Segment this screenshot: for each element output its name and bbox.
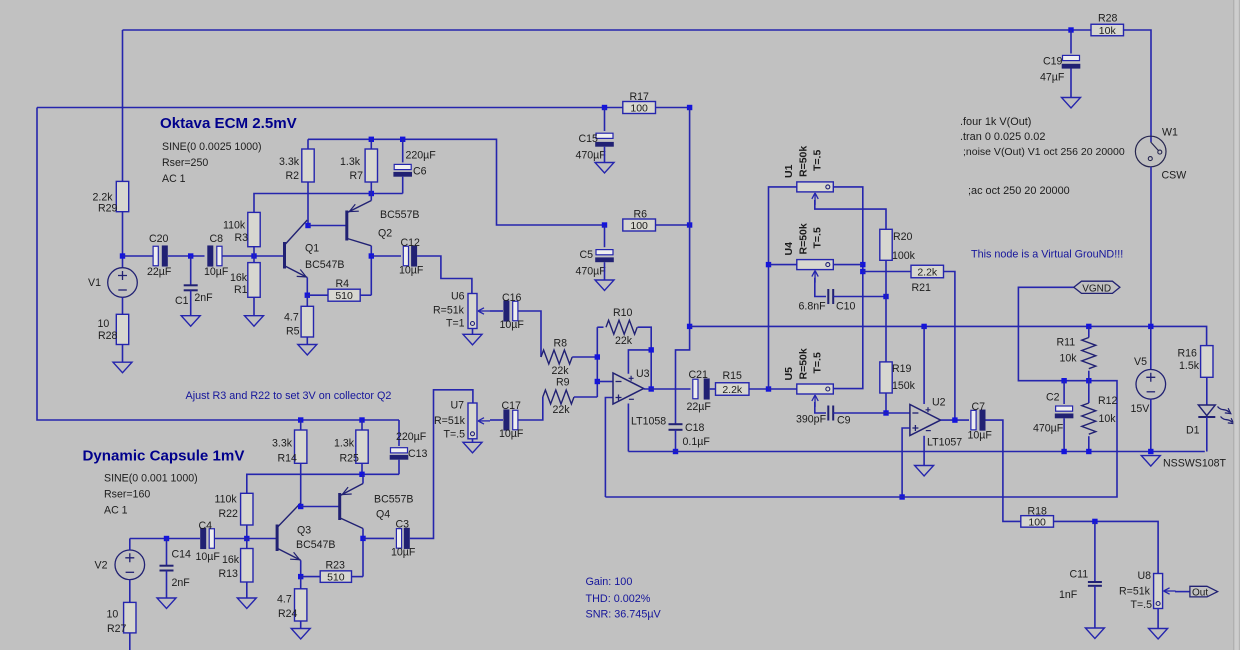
resistor R22 110k: [241, 493, 253, 525]
svg-text:T=.5: T=.5: [1131, 599, 1153, 611]
ground V5: [1141, 456, 1160, 467]
label C12: [401, 237, 421, 249]
resistor R7 1.3k: [365, 149, 377, 182]
wire R28b to gnd: [122, 345, 124, 363]
node mic input V1: [120, 253, 125, 258]
wire R10 right lead: [638, 327, 652, 389]
svg-text:C1: C1: [175, 295, 189, 307]
svg-text:R=51k: R=51k: [1119, 586, 1151, 598]
wire R14 to Q3 collector: [300, 463, 302, 506]
svg-text:Q2: Q2: [378, 228, 392, 240]
node V5 minus: [1148, 449, 1153, 454]
label R24: [278, 608, 298, 620]
ground C15: [595, 163, 614, 174]
label C7 value: [968, 430, 993, 442]
label R16: [1178, 348, 1198, 360]
potentiometer U6: [468, 294, 490, 329]
wire R22 bottom: [246, 525, 248, 539]
wire C6 top lead: [402, 139, 404, 162]
flag VGND: [1074, 281, 1120, 294]
svg-text:R25: R25: [340, 453, 360, 465]
label U5: [783, 367, 795, 381]
wire C5 to gnd: [604, 262, 606, 280]
resistor R29 2.2k: [116, 181, 128, 211]
label U6 T: [446, 318, 465, 330]
wire dynamic bias: [247, 474, 399, 493]
svg-text:2.2k: 2.2k: [722, 384, 743, 396]
label C11 value: [1059, 589, 1078, 601]
label R5 value: [284, 311, 299, 323]
svg-text:W1: W1: [1162, 127, 1178, 139]
label V5 value: [1131, 403, 1151, 415]
svg-text:U6: U6: [451, 291, 465, 303]
wire R11 top lead: [1088, 326, 1090, 337]
svg-text:R24: R24: [278, 608, 298, 620]
label R28: [1098, 13, 1118, 25]
svg-text:C7: C7: [972, 401, 986, 413]
wire C1 to gnd: [190, 290, 192, 315]
ground V1 branch: [113, 362, 132, 373]
wire R5 top: [306, 295, 308, 306]
svg-text:3.3k: 3.3k: [272, 438, 293, 450]
node R21 tap: [860, 269, 865, 274]
node C14 tap: [164, 536, 169, 541]
wire W1 down to supply line: [1150, 167, 1152, 327]
svg-text:R7: R7: [350, 170, 364, 182]
svg-text:;noise V(Out) V1 oct 256 20 20: ;noise V(Out) V1 oct 256 20 20000: [963, 146, 1125, 158]
label C4: [199, 520, 213, 532]
label R19 value: [892, 380, 916, 392]
svg-text:220µF: 220µF: [396, 431, 427, 443]
svg-text:C2: C2: [1046, 392, 1060, 404]
label C13 value: [396, 431, 427, 443]
label U1: [783, 164, 795, 178]
svg-text:22k: 22k: [552, 365, 570, 377]
label R12: [1098, 395, 1118, 407]
label U4 T: [812, 227, 824, 248]
svg-text:C6: C6: [413, 166, 427, 178]
svg-text:R=50k: R=50k: [798, 348, 810, 379]
op-amp U3 LT1058: [613, 373, 644, 404]
svg-text:10µF: 10µF: [399, 265, 424, 277]
wire top phantom rail: [123, 29, 1092, 31]
svg-text:AC 1: AC 1: [104, 505, 128, 517]
label R2 value: [279, 156, 300, 168]
svg-text:R16: R16: [1178, 348, 1198, 360]
resistor R2 3.3k: [302, 149, 314, 182]
wire C14 to gnd: [166, 571, 168, 599]
label U6 value: [433, 304, 465, 316]
label R14 value: [272, 438, 293, 450]
label R11: [1057, 337, 1076, 349]
svg-text:Gain: 100: Gain: 100: [586, 576, 633, 588]
label Q1 type: [305, 259, 344, 271]
svg-text:R8: R8: [554, 338, 568, 350]
svg-text:BC557B: BC557B: [380, 209, 419, 221]
ground C1: [181, 316, 200, 327]
capacitor C2: [1055, 406, 1074, 418]
wire R3 bottom: [253, 247, 255, 263]
label U7 value: [434, 415, 466, 427]
svg-text:BC547B: BC547B: [305, 259, 344, 271]
wire left drop x37: [37, 108, 399, 421]
svg-text:10µF: 10µF: [968, 430, 993, 442]
svg-text:16k: 16k: [230, 272, 248, 284]
svg-text:U5: U5: [783, 367, 795, 381]
label C4 value: [196, 551, 221, 563]
label R15: [723, 370, 743, 382]
label W1: [1162, 127, 1178, 139]
svg-text:T=.5: T=.5: [444, 429, 466, 441]
svg-text:C3: C3: [396, 519, 410, 531]
svg-text:R21: R21: [912, 282, 932, 294]
resistor R6 100: [623, 219, 656, 232]
node inverting input U3: [595, 379, 600, 384]
wire tone left riser: [769, 187, 797, 389]
wire C12 to U6: [417, 256, 472, 294]
label Q3: [297, 525, 311, 537]
wire R18 right: [1054, 521, 1159, 573]
label C12 value: [399, 265, 424, 277]
label R7: [350, 170, 364, 182]
label C3: [396, 519, 410, 531]
wire U2 vplus: [923, 326, 925, 404]
label U5 value: [798, 348, 810, 379]
label C10 value: [799, 301, 827, 313]
resistor R16 1.5k: [1201, 346, 1213, 378]
ground R24: [291, 629, 310, 640]
potentiometer U8: [1154, 574, 1176, 609]
comment V1 rser: [162, 157, 208, 169]
node tone input: [766, 386, 771, 391]
capacitor C4: [200, 528, 214, 549]
svg-text:R14: R14: [278, 453, 298, 465]
wire R21 left lead: [863, 271, 911, 273]
label U2: [932, 397, 946, 409]
wire Q3 emitter node: [300, 560, 302, 576]
label R23: [326, 560, 346, 572]
label U2 type: [927, 436, 962, 448]
directive tran: [960, 131, 1045, 143]
wire R28 to W1 corner: [1124, 30, 1152, 142]
svg-text:3.3k: 3.3k: [279, 156, 300, 168]
label U7: [451, 400, 465, 412]
wire R10 left lead: [597, 326, 603, 328]
label Q4 type: [374, 494, 413, 506]
svg-text:10k: 10k: [1099, 25, 1117, 37]
label R20 value: [892, 250, 916, 262]
wire R11 bottom lead: [1088, 371, 1090, 381]
svg-text:47µF: 47µF: [1040, 72, 1065, 84]
wire Q4 out to C3: [363, 537, 394, 539]
wire oktava feed y107: [37, 107, 623, 109]
wire C9 right lead: [833, 412, 886, 414]
wire C1 lead: [190, 256, 192, 285]
label R1: [234, 284, 248, 296]
svg-text:.tran 0 0.025 0.02: .tran 0 0.025 0.02: [960, 131, 1045, 143]
wire emitter to R4 node: [306, 278, 308, 296]
svg-text:C11: C11: [1070, 568, 1089, 580]
wire U5 wiper chain: [815, 402, 826, 413]
svg-text:C21: C21: [689, 369, 709, 381]
label R20: [893, 231, 913, 243]
capacitor C3: [396, 528, 409, 549]
label C16: [502, 292, 522, 304]
wire C10 right lead: [833, 296, 886, 298]
svg-text:V1: V1: [88, 277, 101, 289]
svg-text:R23: R23: [326, 560, 346, 572]
capacitor C9: [828, 406, 833, 421]
svg-text:R6: R6: [634, 208, 648, 220]
label C20: [149, 233, 169, 245]
svg-text:2nF: 2nF: [194, 292, 213, 304]
comment virtual ground: [971, 249, 1123, 261]
label R13 value: [222, 554, 240, 566]
wire collector to Q2 base: [308, 225, 346, 227]
label C14 value: [172, 577, 191, 589]
label C7: [972, 401, 986, 413]
label R28b: [98, 330, 118, 342]
wire C21 to R15: [710, 388, 716, 390]
capacitor C10: [828, 289, 833, 304]
resistor R20 100k: [880, 229, 892, 260]
node U2 vplus tap: [921, 324, 926, 329]
svg-text:10µF: 10µF: [500, 319, 525, 331]
svg-text:This node is a Virtual GrouND!: This node is a Virtual GrouND!!!: [971, 249, 1123, 261]
comment V2 rser: [104, 489, 150, 501]
svg-text:U1: U1: [783, 164, 795, 178]
label R27: [107, 623, 127, 635]
label R28b value: [98, 318, 110, 330]
wire R7 top: [370, 139, 372, 149]
wire U3 plus to vgnd: [605, 398, 612, 498]
resistor R27 10: [124, 602, 136, 633]
svg-text:220µF: 220µF: [406, 149, 437, 161]
svg-text:10µF: 10µF: [499, 428, 524, 440]
label R7 value: [340, 156, 361, 168]
wire R15 right: [749, 388, 769, 390]
wire main supply line: [690, 326, 1207, 345]
voltage source V5 15V: [1136, 370, 1166, 400]
wire U6 to gnd: [472, 329, 474, 335]
svg-text:SINE(0 0.001 1000): SINE(0 0.001 1000): [104, 473, 198, 485]
svg-text:U7: U7: [451, 400, 465, 412]
svg-text:Rser=250: Rser=250: [162, 157, 208, 169]
svg-text:Rser=160: Rser=160: [104, 489, 150, 501]
comment gain: [586, 576, 633, 588]
label C9: [837, 415, 851, 427]
svg-text:AC 1: AC 1: [162, 173, 186, 185]
svg-text:R12: R12: [1098, 395, 1118, 407]
svg-text:150k: 150k: [892, 380, 916, 392]
label R22 value: [215, 494, 238, 506]
wire U2 plus input: [902, 428, 909, 497]
svg-text:R15: R15: [723, 370, 743, 382]
wire R2 to collector node: [307, 182, 309, 226]
label U3: [636, 368, 650, 380]
wire R21 to U2 out: [944, 272, 955, 421]
svg-text:10µF: 10µF: [204, 266, 229, 278]
svg-text:C20: C20: [149, 233, 169, 245]
wire oktava rail: [308, 139, 605, 225]
resistor R4 510: [328, 289, 360, 302]
wire C11 lead: [1094, 521, 1096, 581]
wire C7 to R18: [986, 420, 1021, 521]
wire V2 top: [129, 539, 131, 551]
op-amp U2 LT1057: [910, 405, 941, 436]
svg-text:R=51k: R=51k: [433, 304, 465, 316]
svg-text:100: 100: [630, 220, 648, 232]
resistor R10 22k: [606, 320, 637, 334]
node U2 inverting: [883, 410, 888, 415]
capacitor C15: [595, 133, 614, 147]
wire R5 to gnd: [306, 337, 308, 345]
label Q2: [378, 228, 392, 240]
wire R12 top lead: [1088, 381, 1090, 403]
label U7 T: [444, 429, 466, 441]
label R3: [235, 232, 249, 244]
svg-text:C12: C12: [401, 237, 421, 249]
label D1 type: [1163, 458, 1227, 470]
wire U8 to gnd: [1157, 609, 1159, 629]
wire R12 bottom lead: [1088, 436, 1090, 451]
svg-text:R13: R13: [219, 568, 239, 580]
svg-text:Q3: Q3: [297, 525, 311, 537]
wire C16 to R8: [518, 311, 541, 357]
label V1: [88, 277, 101, 289]
ground R13: [237, 598, 256, 609]
ground C14: [157, 598, 176, 609]
resistor R1 16k: [248, 263, 260, 298]
svg-text:1nF: 1nF: [1059, 589, 1078, 601]
node U2 output: [952, 417, 957, 422]
label U8 value: [1119, 586, 1151, 598]
label C11: [1070, 568, 1089, 580]
wire C15 lead: [604, 108, 606, 132]
wire vgnd rail: [605, 287, 1117, 497]
svg-text:Q4: Q4: [376, 509, 390, 521]
node Q3 base bias: [244, 536, 249, 541]
svg-text:R2: R2: [286, 170, 300, 182]
resistor R8 22k: [541, 350, 572, 364]
label Q1: [305, 243, 319, 255]
comment dynamic title: [83, 448, 245, 465]
wire C2 top lead: [1063, 381, 1065, 404]
resistor R14 3.3k: [295, 430, 307, 463]
svg-text:R5: R5: [286, 325, 300, 337]
wire R20 to R19: [885, 260, 887, 362]
svg-text:U4: U4: [783, 242, 795, 256]
label R10 value: [615, 335, 633, 347]
wire C19 to gnd: [1070, 69, 1072, 98]
svg-text:C13: C13: [408, 448, 428, 460]
comment thd: [586, 593, 651, 605]
svg-text:2.2k: 2.2k: [917, 267, 938, 279]
wire V1 to R28b: [122, 297, 124, 314]
svg-text:Out: Out: [1192, 588, 1208, 599]
svg-text:1.3k: 1.3k: [334, 438, 355, 450]
wire U1 wiper chain: [815, 200, 886, 229]
wire R24 top: [300, 577, 302, 589]
resistor R28 10: [116, 314, 128, 344]
svg-text:;ac oct 250 20 20000: ;ac oct 250 20 20000: [968, 185, 1070, 197]
flag Out: [1190, 586, 1218, 598]
node R8 junction: [595, 354, 600, 359]
ground U6: [463, 334, 482, 345]
label R10: [613, 307, 633, 319]
svg-text:.four 1k V(Out): .four 1k V(Out): [960, 116, 1031, 128]
svg-text:C16: C16: [502, 292, 522, 304]
resistor R23 510: [320, 571, 351, 584]
capacitor C12: [403, 245, 417, 266]
wire U6 wiper to C16: [490, 310, 503, 312]
wire supply to C18: [676, 326, 690, 423]
wire R25 top: [361, 420, 363, 430]
label R21: [912, 282, 932, 294]
label U4: [783, 242, 795, 256]
capacitor C11: [1088, 582, 1102, 586]
svg-text:110k: 110k: [223, 219, 246, 231]
svg-text:4.7: 4.7: [277, 593, 292, 605]
wire V5 bottom lead: [1150, 399, 1152, 451]
capacitor C14: [160, 566, 174, 571]
svg-text:BC547B: BC547B: [296, 539, 335, 551]
node C12 tap: [369, 253, 374, 258]
label C2 value: [1033, 423, 1064, 435]
label C18 value: [683, 436, 711, 448]
node Q3 collector: [298, 504, 303, 509]
label C17: [502, 400, 522, 412]
svg-text:Dynamic Capsule 1mV: Dynamic Capsule 1mV: [83, 448, 245, 465]
label C20 value: [147, 266, 172, 278]
label C6: [413, 166, 427, 178]
wire R8 right lead: [572, 356, 597, 358]
node C11 tap: [1092, 519, 1097, 524]
label R5: [286, 325, 300, 337]
label C5 value: [576, 266, 607, 278]
label C9 value: [796, 414, 827, 426]
node supply trunk tap: [687, 324, 692, 329]
svg-text:V2: V2: [95, 560, 108, 572]
wire R16 to D1: [1206, 377, 1208, 405]
label C19: [1043, 56, 1063, 68]
capacitor C8: [207, 245, 222, 266]
label R8 value: [552, 365, 570, 377]
wire Q4 collector down: [362, 529, 364, 577]
label C2: [1046, 392, 1060, 404]
label R8: [554, 338, 568, 350]
ground C11: [1085, 628, 1104, 639]
label R19: [892, 363, 912, 375]
svg-text:15V: 15V: [1131, 403, 1151, 415]
resistor R15 2.2k: [716, 383, 750, 396]
svg-text:2nF: 2nF: [172, 577, 191, 589]
svg-text:C19: C19: [1043, 56, 1063, 68]
wire supply trunk x690: [689, 108, 691, 327]
wire C4 to Q3 base: [215, 538, 277, 540]
svg-text:4.7: 4.7: [284, 311, 299, 323]
svg-text:C5: C5: [580, 249, 594, 261]
wire R17 right: [656, 107, 690, 109]
LED D1: [1198, 405, 1234, 424]
wire R6 right: [656, 224, 690, 226]
svg-text:R22: R22: [219, 508, 239, 520]
node vgnd tap U2: [899, 494, 904, 499]
wire R4 right lead: [360, 294, 371, 296]
wire R23 left lead: [301, 576, 321, 578]
label Q4: [376, 509, 390, 521]
svg-text:R18: R18: [1028, 506, 1048, 518]
